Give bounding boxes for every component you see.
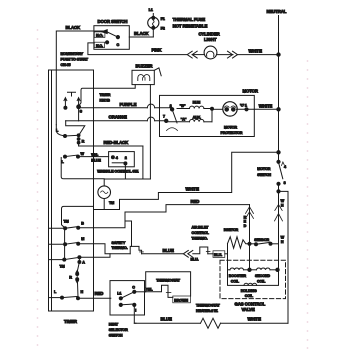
- svg-text:WHITE: WHITE: [248, 317, 262, 322]
- svg-text:SAFETY: SAFETY: [112, 241, 126, 245]
- wire YEL to thermostat: [134, 288, 153, 292]
- svg-text:BLU.: BLU.: [214, 253, 222, 257]
- svg-text:BLU.: BLU.: [191, 257, 199, 261]
- wire RED staircase: [78, 199, 249, 228]
- wire WHITE motor to neutral: [254, 103, 278, 109]
- svg-text:TM: TM: [60, 265, 65, 269]
- svg-text:IGNITOR: IGNITOR: [224, 228, 239, 232]
- node junction booster/red: [248, 268, 251, 271]
- wire WHITE light to neutral: [238, 48, 279, 54]
- wire timer motor row: [94, 209, 120, 211]
- svg-text:LIGHT: LIGHT: [204, 37, 217, 42]
- wrinkle control switch SW2: [97, 152, 138, 174]
- motor AUX winding: [166, 116, 212, 122]
- timer contact A: [49, 256, 86, 269]
- timer linkage from knob to S contact: [79, 88, 93, 105]
- timer linkage W row to collector: [61, 158, 104, 179]
- svg-text:PURPLE: PURPLE: [120, 102, 137, 107]
- connector chevrons right of cylinder light: [217, 51, 238, 58]
- wire RED drop to gas valve: [244, 205, 254, 270]
- svg-text:SENSOR: SENSOR: [254, 238, 269, 242]
- motor centrifugal switch arm: [167, 109, 178, 130]
- svg-text:F1: F1: [161, 17, 165, 21]
- svg-text:THERMOSTAT: THERMOSTAT: [156, 278, 180, 282]
- svg-text:MOTOR: MOTOR: [243, 89, 259, 94]
- wire wrinkle 2 drop: [124, 163, 126, 179]
- motor terminal 2: [170, 104, 186, 111]
- wire RED timer to heat selector: [78, 291, 111, 298]
- svg-text:3: 3: [284, 181, 286, 185]
- svg-text:PROTECTOR: PROTECTOR: [221, 131, 243, 135]
- svg-text:MOMENTARY: MOMENTARY: [61, 52, 84, 56]
- svg-text:WHITE: WHITE: [186, 187, 200, 192]
- svg-text:RED: RED: [191, 199, 200, 204]
- door switch DS1: [94, 19, 129, 49]
- net NEUTRAL: [267, 9, 287, 160]
- svg-text:'C' 1: 'C' 1: [240, 103, 247, 107]
- svg-text:GAS CONTROL: GAS CONTROL: [235, 302, 266, 307]
- timer contact L-W row: [62, 152, 85, 164]
- timer knob label: [100, 93, 111, 103]
- connector chevrons left of cylinder light: [187, 51, 204, 58]
- thermostat heater R2: [196, 303, 221, 328]
- svg-text:SELECTOR: SELECTOR: [109, 328, 128, 332]
- svg-text:CN-85: CN-85: [61, 63, 71, 67]
- motor protector OL1: [221, 102, 243, 135]
- heat selector switch SW1: [109, 281, 145, 338]
- motor M1: [160, 89, 259, 137]
- wire blue drop to booster coil: [227, 244, 229, 270]
- svg-text:THERMO.: THERMO.: [192, 236, 208, 240]
- wire WHITE bottom row: [221, 317, 289, 324]
- wire PINK from N.C. to connector: [88, 43, 187, 55]
- wire heat selector I drop: [134, 305, 136, 323]
- door switch N.O. label box: [94, 32, 105, 38]
- ignitor R-IGN: [224, 228, 250, 248]
- wire M feed to safety thermo: [78, 244, 130, 254]
- connector chevron blue: [183, 250, 198, 261]
- svg-text:CYLINDER: CYLINDER: [199, 31, 221, 36]
- svg-text:BLUE: BLUE: [91, 159, 101, 163]
- svg-text:WHITE: WHITE: [259, 103, 273, 108]
- svg-text:SWITCH: SWITCH: [109, 334, 123, 338]
- scan artifact dots left: [37, 29, 39, 346]
- wire sensor/neutral down to second coil: [278, 244, 280, 270]
- svg-text:"B": "B": [180, 104, 186, 108]
- svg-text:VALVE: VALVE: [242, 307, 255, 312]
- svg-text:NEUTRAL: NEUTRAL: [267, 9, 287, 14]
- timer T1 box: [49, 52, 94, 324]
- svg-text:BROWN: BROWN: [174, 298, 188, 302]
- door switch C contact: [116, 36, 119, 39]
- node junction second/neutral: [276, 268, 279, 271]
- svg-text:THERMO.: THERMO.: [112, 246, 128, 250]
- motor terminal C 1: [236, 103, 254, 111]
- timer push-to-start contact T: [64, 92, 83, 113]
- node junction wrap: [277, 190, 280, 193]
- svg-text:THERMAL FUSE: THERMAL FUSE: [173, 17, 206, 22]
- svg-text:MOTOR: MOTOR: [257, 167, 270, 171]
- svg-text:PUSH TO START: PUSH TO START: [61, 58, 89, 62]
- svg-text:M: M: [81, 237, 84, 241]
- safety thermostat TS1: [112, 221, 144, 254]
- node junction white/neutral: [277, 151, 280, 154]
- gas valve coil box: [228, 270, 279, 286]
- door switch N.O. arrowhead: [102, 30, 107, 34]
- timer linkage A-R-H chain: [78, 262, 80, 297]
- wire RED-BLACK: [79, 140, 143, 146]
- wire PURPLE timer to motor: [79, 102, 171, 108]
- svg-text:F2: F2: [161, 26, 165, 30]
- door switch N.C. contact: [106, 41, 109, 44]
- gas control valve label: [235, 302, 266, 313]
- svg-text:NOT RESETABLE: NOT RESETABLE: [173, 24, 208, 29]
- wire buzzer feed from timer: [94, 85, 136, 89]
- svg-text:TIMER: TIMER: [64, 319, 78, 324]
- svg-text:CONTROL: CONTROL: [192, 231, 210, 235]
- svg-text:7: 7: [163, 115, 165, 119]
- connector chevrons on neutral: [275, 199, 285, 244]
- svg-text:TM: TM: [109, 201, 114, 205]
- svg-text:BLUE: BLUE: [163, 248, 175, 253]
- svg-text:BOOSTER: BOOSTER: [229, 274, 247, 278]
- svg-text:WRINKLE CONTROL SW.: WRINKLE CONTROL SW.: [97, 169, 138, 173]
- svg-text:HEAT: HEAT: [109, 323, 119, 327]
- svg-text:I: I: [135, 308, 136, 312]
- wire red-black drop: [142, 146, 144, 179]
- wire wrap right side down: [279, 191, 289, 323]
- scan artifact dots right: [307, 60, 309, 349]
- cylinder light DL1: [199, 31, 221, 58]
- wire BLUE bottom row: [134, 316, 200, 323]
- svg-text:N.C.: N.C.: [96, 44, 103, 48]
- svg-text:PINK: PINK: [152, 48, 163, 53]
- connector label BROWN boxed: [173, 296, 191, 303]
- timer contact M: [49, 237, 85, 246]
- svg-text:MOTOR: MOTOR: [224, 126, 237, 130]
- svg-text:HOLDING: HOLDING: [241, 289, 257, 293]
- svg-text:YEL: YEL: [146, 288, 154, 292]
- operating thermostat TS3: [146, 272, 191, 298]
- air inlet control thermostat TS2: [192, 226, 214, 254]
- wire timer feed inner: [55, 70, 57, 125]
- svg-text:SWITCH: SWITCH: [257, 173, 271, 177]
- connector label BLU boxed: [213, 251, 228, 258]
- svg-text:COIL: COIL: [231, 279, 240, 283]
- holding coil L3: [241, 283, 257, 297]
- svg-text:2: 2: [170, 104, 172, 108]
- timer contact L hook: [56, 125, 67, 138]
- timer contact R pair: [69, 270, 78, 283]
- timer linkage lower cam rail: [62, 206, 94, 228]
- wire contact S down-step to orange row: [78, 108, 80, 121]
- node junction red/sensor: [248, 242, 251, 245]
- timer motor TM: [98, 179, 114, 210]
- svg-text:TIMER: TIMER: [100, 93, 111, 97]
- svg-text:2: 2: [125, 156, 127, 160]
- wire A feed: [79, 254, 110, 257]
- wire buzzer drop: [149, 85, 151, 179]
- wire winding common: [211, 107, 223, 122]
- timer contact TM-B: [49, 219, 85, 230]
- timer contact L-H: [49, 290, 84, 300]
- thermal fuse F1 F2: [148, 8, 208, 37]
- svg-text:L1: L1: [117, 292, 121, 296]
- motor terminal 7: [163, 115, 187, 123]
- svg-text:WHITE: WHITE: [249, 48, 263, 53]
- wire BLACK feed from line to door switch: [56, 25, 105, 70]
- timer contact R stack: [77, 134, 84, 146]
- door switch N.C. label box: [94, 42, 104, 47]
- booster coil L1: [229, 268, 247, 283]
- wire WH-BLUE to wrinkle control: [78, 153, 109, 162]
- svg-text:KNOB: KNOB: [100, 99, 111, 103]
- motor RUN winding: [177, 100, 212, 108]
- svg-text:BLACK: BLACK: [134, 31, 150, 36]
- svg-text:HEATER-2 W.: HEATER-2 W.: [196, 309, 218, 313]
- svg-text:RUN: RUN: [193, 100, 201, 104]
- svg-text:"A": "A": [181, 117, 187, 121]
- svg-text:RED: RED: [95, 291, 104, 296]
- buzzer BZ1: [132, 64, 161, 85]
- svg-text:COIL: COIL: [245, 294, 254, 298]
- svg-text:DOOR SWITCH: DOOR SWITCH: [98, 19, 128, 24]
- svg-text:BLUE: BLUE: [161, 316, 173, 321]
- svg-text:WH-: WH-: [91, 153, 99, 157]
- gas control valve dashed enclosure: [220, 260, 286, 298]
- timer internal wire to R: [65, 121, 85, 136]
- svg-text:COIL: COIL: [257, 279, 266, 283]
- wire WHITE staircase: [120, 152, 279, 209]
- svg-text:ORANGE: ORANGE: [109, 114, 127, 119]
- svg-text:L1: L1: [149, 8, 153, 12]
- svg-text:N.O.: N.O.: [96, 33, 103, 37]
- timer linkage B-M-A chain: [64, 228, 66, 259]
- node junction light/neutral: [277, 53, 280, 56]
- svg-text:SECOND: SECOND: [255, 274, 270, 278]
- motor switch on neutral: [257, 160, 287, 244]
- svg-text:RED-BLACK: RED-BLACK: [104, 140, 130, 145]
- svg-text:BLACK: BLACK: [66, 25, 82, 30]
- door switch arm N.O. to C: [106, 32, 118, 38]
- second coil L2: [255, 268, 270, 283]
- svg-text:TM: TM: [64, 219, 69, 223]
- wire collector row: [104, 178, 150, 180]
- wire ORANGE timer to motor: [79, 114, 165, 120]
- sensor contact: [250, 238, 279, 246]
- wire BLACK door switch to thermal fuse: [129, 31, 153, 37]
- wire BLUE row: [142, 248, 183, 254]
- svg-text:AIR INLET: AIR INLET: [192, 226, 210, 230]
- svg-text:BUZZER: BUZZER: [136, 64, 154, 69]
- node junction motor white/neutral: [277, 108, 280, 111]
- svg-text:THERMOSTAT: THERMOSTAT: [196, 303, 220, 307]
